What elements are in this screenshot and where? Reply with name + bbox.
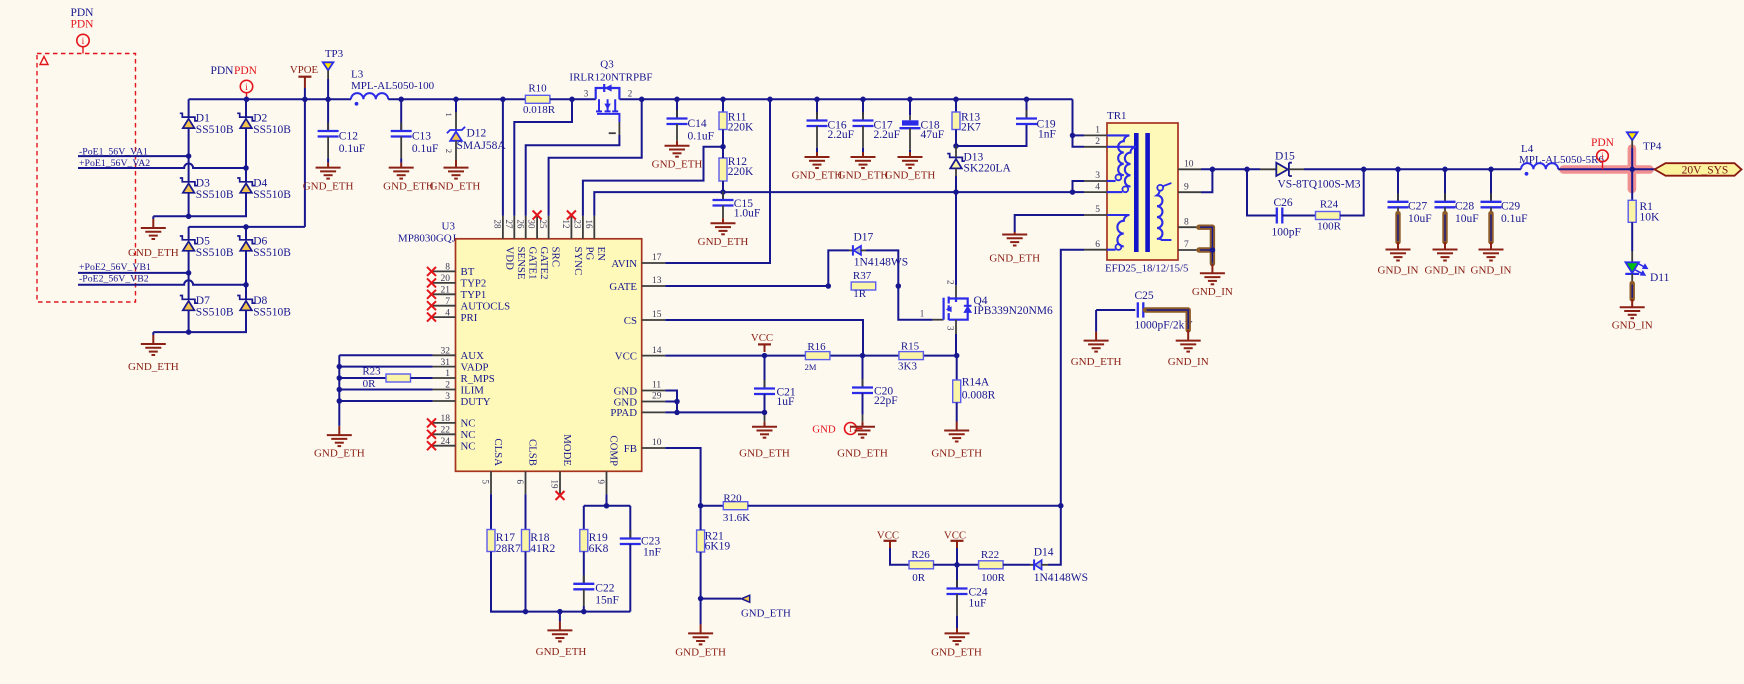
svg-text:SS510B: SS510B bbox=[196, 124, 234, 136]
thick wire D11 ground bbox=[1629, 284, 1634, 300]
svg-text:C14: C14 bbox=[688, 118, 707, 130]
svg-text:5: 5 bbox=[1095, 205, 1100, 215]
wire rail down to TR1 bbox=[1072, 99, 1074, 135]
diode D13 bbox=[947, 154, 965, 162]
svg-text:31.6K: 31.6K bbox=[723, 512, 750, 524]
power VCC bar bbox=[758, 343, 771, 345]
wire to pin1 bbox=[1073, 134, 1085, 136]
capacitor C12 bbox=[327, 123, 329, 132]
wire R_MPS left bbox=[339, 377, 386, 379]
junction R16/R15/C20/CS bbox=[860, 353, 866, 359]
capacitor lead bbox=[676, 124, 678, 141]
svg-text:2.2uF: 2.2uF bbox=[874, 129, 901, 141]
TR1 pin 6 stub bbox=[1084, 249, 1107, 251]
svg-text:8: 8 bbox=[445, 263, 450, 273]
svg-text:GND_ETH: GND_ETH bbox=[989, 253, 1040, 265]
resistor R26 bbox=[909, 561, 934, 569]
wire rail to C19 bbox=[1026, 99, 1028, 118]
svg-text:3: 3 bbox=[945, 326, 955, 331]
U3 pin 24 NC stub bbox=[433, 445, 456, 447]
resistor R20 bbox=[723, 502, 748, 510]
svg-text:D15: D15 bbox=[1275, 151, 1295, 163]
wire VPOE to rail bbox=[304, 88, 306, 99]
wire C26 to R24 bbox=[1282, 215, 1315, 217]
svg-text:PPAD: PPAD bbox=[610, 407, 637, 419]
svg-text:1R: 1R bbox=[853, 288, 867, 300]
svg-text:D4: D4 bbox=[253, 177, 267, 189]
wire TP3 to rail bbox=[327, 79, 329, 99]
ground stem bbox=[152, 332, 154, 335]
svg-text:7: 7 bbox=[1184, 240, 1189, 250]
junction TP4/flag bbox=[1629, 167, 1635, 173]
svg-text:GND_ETH: GND_ETH bbox=[430, 180, 481, 192]
junction bottom rail bbox=[557, 609, 563, 615]
svg-text:10uF: 10uF bbox=[1455, 213, 1479, 225]
svg-text:D14: D14 bbox=[1034, 547, 1054, 559]
wire to C28 bbox=[1444, 169, 1446, 202]
wire Q3 gate to GATE1 bbox=[526, 135, 620, 216]
svg-text:PRI: PRI bbox=[461, 312, 478, 324]
capacitor C19 bbox=[1026, 110, 1028, 119]
svg-text:PDN: PDN bbox=[70, 7, 94, 19]
U3 pin 3 DUTY stub bbox=[433, 400, 456, 402]
wire D14 up bbox=[1048, 506, 1061, 565]
thick wire C27 ground bbox=[1397, 207, 1399, 213]
svg-text:0.1uF: 0.1uF bbox=[688, 130, 715, 142]
svg-text:30: 30 bbox=[527, 220, 537, 230]
svg-text:1uF: 1uF bbox=[777, 396, 795, 408]
junction left rail bbox=[337, 398, 343, 404]
junction TR1 pin1 bbox=[1070, 133, 1076, 139]
wire VPOE column to bridge bbox=[304, 99, 306, 227]
capacitor C21 bbox=[764, 380, 766, 389]
svg-text:R22: R22 bbox=[981, 549, 999, 561]
wire CLSB to R18 bbox=[525, 494, 527, 529]
junction rail R13 bbox=[953, 97, 959, 103]
inductor L4 bbox=[1521, 163, 1558, 169]
wire bridge output rail bbox=[189, 226, 305, 228]
resistor R10 bbox=[525, 95, 550, 103]
svg-text:R23: R23 bbox=[362, 365, 381, 377]
resistor R1 bbox=[1628, 200, 1636, 222]
svg-text:PG: PG bbox=[584, 247, 596, 261]
svg-text:13: 13 bbox=[652, 276, 662, 286]
svg-text:2.2uF: 2.2uF bbox=[828, 129, 855, 141]
junction rail D12 bbox=[453, 97, 459, 103]
ground stem bbox=[1095, 330, 1097, 333]
svg-text:41R2: 41R2 bbox=[530, 543, 555, 555]
U3 pin 22 NC stub bbox=[433, 433, 456, 435]
svg-text:21: 21 bbox=[441, 286, 451, 296]
svg-text:SS510B: SS510B bbox=[253, 247, 291, 259]
junction rail C14 bbox=[674, 97, 680, 103]
wire rail to R13 bbox=[955, 99, 957, 112]
U3 pin 6 CLSB stub bbox=[525, 471, 527, 494]
no-connect X pin 21 bbox=[427, 290, 436, 299]
svg-text:D12: D12 bbox=[467, 128, 487, 140]
U3 pin 7 AUTOCLS stub bbox=[433, 305, 456, 307]
diode D14 bbox=[1030, 564, 1034, 566]
svg-text:TYP1: TYP1 bbox=[461, 289, 487, 301]
junction TR1 pins3/4 EN bbox=[1070, 189, 1076, 195]
svg-text:2K7: 2K7 bbox=[961, 121, 981, 133]
junction rail VPOE bbox=[302, 97, 308, 103]
wire CS bbox=[665, 320, 863, 356]
wire bottom rail bbox=[491, 611, 630, 613]
TR1 pin 1 stub bbox=[1084, 134, 1107, 136]
resistor R23 bbox=[386, 374, 411, 382]
wire VCC to R26 bbox=[890, 548, 909, 565]
svg-text:100R: 100R bbox=[1317, 221, 1342, 233]
svg-text:GND_IN: GND_IN bbox=[1612, 319, 1653, 331]
junction R13/C19/D13 bbox=[953, 143, 959, 149]
wire -PoE1_56V_VA1 bbox=[78, 155, 189, 157]
svg-text:20V_SYS: 20V_SYS bbox=[1682, 164, 1729, 176]
probe connector line 2 bbox=[246, 93, 248, 100]
wire to C15 bbox=[722, 192, 724, 200]
no-connect X pin 24 bbox=[427, 441, 436, 450]
wire R12 to EN row bbox=[722, 181, 724, 192]
svg-text:R17: R17 bbox=[496, 532, 515, 544]
wire pin5 to ground bbox=[1015, 215, 1084, 232]
svg-text:GND_ETH: GND_ETH bbox=[652, 158, 703, 170]
ground GND_ETH C13 bbox=[389, 168, 414, 179]
wire C20 to gnd bbox=[862, 393, 864, 415]
ground stem bbox=[1211, 263, 1213, 266]
wire rail to C13 bbox=[400, 99, 402, 131]
wire to Q4 drain bbox=[955, 192, 957, 285]
capacitor lead bbox=[909, 128, 911, 150]
junction bottom rail bbox=[581, 609, 587, 615]
junction pins7/8 bbox=[1210, 247, 1216, 253]
wire D1 to VA1 bbox=[188, 128, 190, 156]
svg-text:-PoE2_56V_VB2: -PoE2_56V_VB2 bbox=[79, 274, 149, 285]
svg-text:25: 25 bbox=[538, 220, 548, 230]
thick wire C28 ground bbox=[1444, 207, 1446, 213]
wire to port GND_ETH bbox=[701, 598, 741, 600]
svg-text:SS510B: SS510B bbox=[253, 306, 291, 318]
svg-text:28: 28 bbox=[493, 220, 503, 230]
U3 pin 13 GATE stub bbox=[642, 285, 666, 287]
svg-text:SS510B: SS510B bbox=[196, 189, 234, 201]
svg-text:2: 2 bbox=[1095, 137, 1100, 147]
junction D1/D3/VA1 bbox=[186, 153, 192, 159]
test point TP4 bbox=[1627, 132, 1638, 140]
U3 pin 5 CLSA stub bbox=[490, 471, 492, 494]
junction rail SENSE bbox=[569, 97, 575, 103]
junction D13/EN/Q4 bbox=[953, 189, 959, 195]
svg-text:2: 2 bbox=[444, 149, 454, 153]
wire +PoE1_56V_VA2 with hop bbox=[78, 164, 246, 169]
U3 pin 30 GATE2 stub bbox=[536, 216, 538, 239]
svg-text:17: 17 bbox=[652, 253, 662, 263]
svg-text:BT: BT bbox=[461, 266, 475, 278]
svg-text:CS: CS bbox=[624, 315, 637, 327]
svg-text:D1: D1 bbox=[196, 113, 210, 125]
resistor R15 bbox=[899, 352, 924, 360]
wire to D6 bbox=[245, 227, 247, 240]
svg-text:1uF: 1uF bbox=[969, 598, 987, 610]
wire C25 left down bbox=[1095, 310, 1097, 331]
ground GND_ETH TR1 pin5 bbox=[1002, 235, 1027, 246]
svg-text:C27: C27 bbox=[1408, 201, 1427, 213]
svg-text:SYNC: SYNC bbox=[572, 247, 584, 276]
wire R24 up bbox=[1340, 169, 1364, 215]
wire rail to D12 bbox=[455, 99, 457, 112]
junction rail C16 bbox=[814, 97, 820, 103]
ground GND_ETH C25 bbox=[1084, 341, 1109, 352]
diode D4 bbox=[237, 178, 255, 186]
svg-text:ILIM: ILIM bbox=[461, 384, 485, 396]
U3 pin 1 R_MPS stub bbox=[433, 377, 456, 379]
svg-text:TP3: TP3 bbox=[325, 48, 344, 60]
junction left rail bbox=[337, 364, 343, 370]
wire EN row bbox=[594, 192, 1072, 216]
port GND_ETH arrow bbox=[741, 595, 749, 602]
svg-text:GND_ETH: GND_ETH bbox=[675, 646, 726, 658]
power VCC bar 2 bbox=[884, 540, 897, 542]
junction pins9/10 bbox=[1210, 167, 1216, 173]
svg-text:R20: R20 bbox=[723, 492, 742, 504]
D13 top lead bbox=[955, 146, 957, 157]
svg-text:GND_ETH: GND_ETH bbox=[885, 170, 936, 182]
Q3 gate lead bbox=[618, 122, 620, 135]
ground GND_IN C29 bbox=[1479, 250, 1504, 261]
wire to R20 bbox=[701, 505, 724, 507]
wire VA1 to D3 bbox=[188, 156, 190, 182]
U3 pin 28 VDD stub bbox=[502, 216, 504, 239]
svg-text:GND_IN: GND_IN bbox=[1192, 286, 1233, 298]
thick wire TR1 pin7 tie bbox=[1199, 247, 1212, 252]
svg-text:SRC: SRC bbox=[549, 247, 561, 267]
capacitor lead bbox=[400, 137, 402, 159]
svg-text:100R: 100R bbox=[981, 572, 1006, 584]
resistor R24 bbox=[1316, 212, 1341, 220]
wire R11/R12 bbox=[722, 147, 724, 158]
U3 pin 32 AUX stub bbox=[433, 354, 456, 356]
wire VCC to C21 bbox=[764, 356, 766, 389]
svg-text:VS-8TQ100S-M3: VS-8TQ100S-M3 bbox=[1278, 178, 1361, 190]
svg-text:D7: D7 bbox=[196, 295, 210, 307]
wire top rail segment 3 bbox=[550, 98, 596, 100]
wire to C24 bbox=[956, 565, 958, 589]
junction C29 bbox=[1488, 167, 1494, 173]
junction R37/D17 right bbox=[896, 283, 902, 289]
svg-text:EN: EN bbox=[595, 247, 607, 262]
transistor Q3 bbox=[596, 84, 620, 99]
wire D3 anode bbox=[188, 193, 190, 217]
svg-text:D3: D3 bbox=[196, 177, 210, 189]
wire to pin3 bbox=[1073, 181, 1085, 192]
wire VB1 to D7 bbox=[188, 273, 190, 299]
TR1 pin 5 stub bbox=[1084, 214, 1107, 216]
svg-text:1N4148WS: 1N4148WS bbox=[854, 256, 908, 268]
svg-text:CLSA: CLSA bbox=[492, 438, 504, 466]
svg-text:D8: D8 bbox=[253, 295, 267, 307]
TR1 winding 1-3 bbox=[1107, 135, 1130, 175]
svg-text:FB: FB bbox=[624, 443, 637, 455]
svg-text:1: 1 bbox=[444, 113, 454, 117]
wire AUX bbox=[339, 354, 432, 356]
svg-text:20: 20 bbox=[441, 274, 451, 284]
capacitor C18 polarized bbox=[909, 115, 911, 120]
power VCC stem bbox=[764, 344, 766, 352]
wire VDD to rail bbox=[502, 99, 504, 216]
U3 pin 27 SENSE stub bbox=[513, 216, 515, 239]
ground GND_IN C25 bbox=[1176, 341, 1201, 352]
svg-text:SMAJ58A: SMAJ58A bbox=[457, 140, 507, 152]
ground GND_ETH bridge1 bbox=[141, 228, 166, 239]
wire FB bbox=[665, 448, 700, 506]
svg-text:0.1uF: 0.1uF bbox=[412, 143, 439, 155]
wire top rail segment 1 bbox=[189, 98, 351, 100]
wire rail to C16 bbox=[816, 99, 818, 115]
capacitor C25 bbox=[1138, 302, 1144, 317]
junction C27 bbox=[1395, 167, 1401, 173]
svg-text:TR1: TR1 bbox=[1107, 110, 1127, 122]
svg-text:100pF: 100pF bbox=[1272, 226, 1301, 238]
svg-text:2: 2 bbox=[945, 280, 955, 285]
ground GND_ETH C20 bbox=[850, 427, 875, 438]
U3 pin 25 SRC stub bbox=[548, 216, 550, 239]
diode D1 bbox=[180, 113, 198, 121]
junction C21/PPAD bbox=[762, 410, 768, 416]
junction rail PDN bbox=[244, 97, 250, 103]
ground GND_ETH C14 bbox=[665, 146, 690, 157]
wire DUTY bbox=[339, 400, 432, 402]
wire to C25 bbox=[1096, 309, 1135, 311]
svg-text:12: 12 bbox=[561, 220, 571, 229]
svg-text:4: 4 bbox=[1095, 182, 1100, 192]
svg-text:GND_ETH: GND_ETH bbox=[536, 646, 587, 658]
test point TP3 bbox=[323, 62, 334, 70]
svg-text:GND_IN: GND_IN bbox=[1378, 265, 1419, 277]
ground GND_ETH R14A bbox=[944, 431, 969, 442]
wire to D5 bbox=[188, 227, 190, 240]
junction rail C17 bbox=[860, 97, 866, 103]
svg-text:1nF: 1nF bbox=[1038, 128, 1056, 140]
capacitor C22 bbox=[583, 575, 585, 584]
wire rail to C14 bbox=[676, 99, 678, 118]
svg-text:7: 7 bbox=[445, 297, 450, 307]
svg-text:AUX: AUX bbox=[461, 350, 485, 362]
svg-text:R10: R10 bbox=[528, 83, 547, 95]
svg-text:D6: D6 bbox=[253, 235, 267, 247]
svg-text:2: 2 bbox=[628, 89, 633, 99]
wire COMP down bbox=[606, 494, 608, 506]
wire VCC row bbox=[665, 355, 957, 357]
svg-text:VADP: VADP bbox=[461, 361, 489, 373]
ground stem bbox=[152, 216, 154, 219]
wire D7 anode bbox=[188, 310, 190, 332]
diode D8 bbox=[237, 296, 255, 304]
svg-text:GND: GND bbox=[812, 423, 836, 435]
wire VA2 to D4 bbox=[245, 168, 247, 182]
U3 pin 16 EN stub bbox=[593, 216, 595, 239]
svg-text:5: 5 bbox=[481, 480, 491, 485]
svg-text:4: 4 bbox=[445, 308, 450, 318]
svg-text:31: 31 bbox=[441, 358, 451, 368]
svg-text:IPB339N20NM6: IPB339N20NM6 bbox=[974, 305, 1053, 317]
junction left rail bbox=[337, 387, 343, 393]
probe connector line right bbox=[1602, 162, 1604, 170]
annotation triangle marker bbox=[40, 57, 48, 65]
junction C28 bbox=[1442, 167, 1448, 173]
svg-text:VCC: VCC bbox=[877, 529, 899, 541]
power VCC stem 2 bbox=[889, 541, 891, 548]
U3 pin 11 GND stub bbox=[642, 390, 666, 392]
svg-text:2M: 2M bbox=[805, 362, 817, 372]
probe connector line bbox=[82, 47, 84, 54]
capacitor lead bbox=[327, 137, 329, 159]
svg-text:C28: C28 bbox=[1455, 201, 1474, 213]
wire to C27 bbox=[1397, 169, 1399, 202]
svg-text:NC: NC bbox=[461, 418, 476, 430]
junction bottom rail bbox=[523, 609, 529, 615]
thick wire C25 right bbox=[1146, 310, 1189, 330]
wire D4 anode row bbox=[153, 193, 246, 217]
svg-text:TP4: TP4 bbox=[1643, 141, 1662, 153]
no-connect X pin 30 bbox=[533, 211, 542, 220]
svg-text:22: 22 bbox=[441, 426, 451, 436]
wire CLSA to R17 bbox=[490, 494, 492, 529]
capacitor C27 bbox=[1397, 193, 1399, 202]
D11 lead bbox=[1631, 274, 1633, 284]
wire D2 to VA2 bbox=[245, 128, 247, 168]
svg-text:GND_IN: GND_IN bbox=[1168, 356, 1209, 368]
svg-text:GND_ETH: GND_ETH bbox=[931, 646, 982, 658]
no-connect X pin 18 bbox=[427, 418, 436, 427]
junction R20/pin6/D14 bbox=[1058, 503, 1064, 509]
resistor R13 bbox=[952, 112, 960, 130]
svg-text:VPOE: VPOE bbox=[290, 64, 319, 76]
power VPOE bar bbox=[298, 76, 311, 78]
ground GND_ETH C15 bbox=[711, 223, 736, 234]
TR1 core bbox=[1134, 133, 1139, 252]
U3 pin PPAD stub bbox=[642, 411, 666, 413]
svg-text:SS510B: SS510B bbox=[196, 306, 234, 318]
wire R20 row bbox=[748, 505, 1061, 507]
svg-text:1: 1 bbox=[1095, 126, 1100, 136]
LED D11 bbox=[1631, 251, 1633, 262]
resistor R17 bbox=[487, 530, 495, 552]
no-connect X pin 4 bbox=[427, 313, 436, 322]
wire VCC to node bbox=[956, 548, 958, 565]
capacitor C29 bbox=[1490, 193, 1492, 202]
wire to C26 bbox=[1247, 169, 1276, 215]
svg-text:C22: C22 bbox=[595, 583, 614, 595]
svg-text:DUTY: DUTY bbox=[461, 396, 491, 408]
svg-text:19: 19 bbox=[550, 480, 560, 490]
wire C22 to rail bbox=[583, 606, 585, 612]
TR1 pin 7 stub bbox=[1178, 249, 1201, 251]
svg-text:1: 1 bbox=[920, 309, 925, 319]
power VCC bar 3 bbox=[951, 540, 964, 542]
U3 pin 26 GATE1 stub bbox=[525, 216, 527, 239]
svg-text:220K: 220K bbox=[728, 166, 754, 178]
svg-text:1.0uF: 1.0uF bbox=[734, 208, 761, 220]
junction D5/D7/VB1 bbox=[186, 270, 192, 276]
transformer TR1 bbox=[1105, 110, 1188, 275]
svg-text:VDD: VDD bbox=[504, 247, 516, 271]
C22 lead bbox=[583, 589, 585, 606]
svg-text:GATE2: GATE2 bbox=[538, 247, 550, 280]
junction D15/C26 return bbox=[1361, 167, 1367, 173]
diode D15 bbox=[1260, 168, 1276, 170]
ground GND_ETH C12 bbox=[316, 168, 341, 179]
no-connect X pin 19 bbox=[556, 491, 565, 500]
svg-text:L3: L3 bbox=[351, 69, 364, 81]
